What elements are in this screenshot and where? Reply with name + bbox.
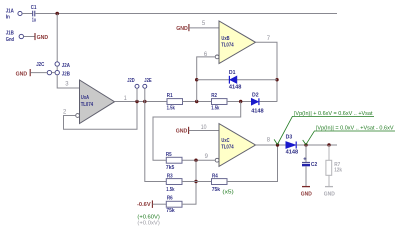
wire J2D to output net: [136, 88, 138, 101]
ground symbol (UxC pin10): [176, 127, 189, 135]
wire GND to UxC pin 10: [189, 130, 219, 132]
capacitor C2: [302, 145, 317, 186]
wire R6 to pin9 vertical: [182, 203, 197, 205]
wire J2E to output net: [144, 88, 146, 101]
junction pin9: [194, 159, 197, 162]
wire UxA output to R1: [115, 101, 168, 103]
svg-text:4148: 4148: [229, 85, 242, 91]
connector J2A: [55, 62, 71, 69]
wire R4 to UxC output branch: [227, 145, 278, 182]
resistor R4 75k: [212, 174, 228, 194]
svg-text:GND: GND: [324, 191, 335, 197]
wire UxB pin6 feedback: [197, 57, 216, 102]
svg-text:GND: GND: [176, 129, 188, 135]
wire D3 to C2/R7: [297, 144, 337, 146]
svg-text:5: 5: [202, 21, 206, 27]
wire GND to UxB pin 5: [189, 27, 219, 29]
svg-text:UxB: UxB: [221, 36, 229, 42]
wire -0.6V to R6: [153, 203, 167, 205]
svg-text:4148: 4148: [251, 108, 264, 114]
op-amp U1B (UxB TL074): [215, 21, 255, 64]
connector J2E: [143, 78, 152, 88]
svg-text:GND: GND: [16, 71, 28, 77]
svg-text:7k5: 7k5: [166, 165, 175, 171]
svg-text:3: 3: [65, 82, 69, 88]
svg-text:8: 8: [267, 138, 271, 144]
svg-text:GND: GND: [37, 35, 49, 41]
wire R3 to R4: [182, 181, 212, 183]
svg-text:In: In: [6, 15, 11, 21]
connector J1B: [6, 31, 24, 43]
note Vp lower: [303, 126, 395, 145]
wire J2C to J2B: [52, 72, 55, 74]
ground symbol (R7, ghost): [324, 187, 335, 198]
junction C2 tap: [304, 143, 307, 146]
svg-text:D2: D2: [252, 93, 259, 99]
op-amp U1A (UxA TL074): [76, 80, 115, 124]
wire pin9 to R5: [182, 159, 215, 161]
svg-text:-0.6V: -0.6V: [137, 202, 151, 208]
resistor R5 7k5: [166, 152, 182, 171]
junction UxC output: [276, 143, 279, 146]
svg-text:R6: R6: [167, 196, 173, 202]
junction R2/D2: [239, 100, 242, 103]
svg-text:9: 9: [205, 154, 209, 160]
ground symbol (UxB pin5): [176, 24, 189, 32]
wire R1 to R2: [183, 101, 212, 103]
svg-text:7: 7: [267, 36, 271, 42]
svg-text:75k: 75k: [166, 208, 175, 214]
wire UxA pin2 feedback loop: [64, 102, 138, 130]
wire pin9 vertical to R3/R6: [195, 160, 197, 204]
svg-text:TL074: TL074: [221, 43, 234, 49]
svg-text:GND: GND: [176, 26, 188, 32]
ground symbol (C2): [301, 187, 312, 198]
wire J2E net down to R3: [145, 102, 167, 182]
resistor R1 1.5k: [167, 93, 183, 112]
wire J2A to J2B: [56, 66, 58, 70]
svg-text:TL074: TL074: [81, 102, 94, 108]
wire D2 to UxB output branch: [259, 101, 277, 103]
svg-text:J2D: J2D: [127, 78, 134, 84]
svg-text:D3: D3: [286, 135, 293, 141]
diode D3 4148: [286, 135, 299, 156]
wire C1 to right end (top rail): [35, 13, 337, 15]
svg-text:J2A: J2A: [62, 63, 71, 69]
diode D1 4148: [229, 70, 242, 91]
svg-text:GND: GND: [301, 191, 312, 197]
junction pin6/D1: [195, 78, 198, 81]
svg-text:4148: 4148: [286, 150, 299, 156]
resistor R2 1.5k: [211, 93, 227, 112]
svg-text:12k: 12k: [334, 167, 342, 173]
wire R2 to D2: [227, 101, 251, 103]
wire R2/D2 junction down to R5 (feedback into pin 9 net): [153, 102, 241, 161]
supply symbol -0.6V: [137, 200, 152, 208]
svg-text:Gnd: Gnd: [6, 37, 15, 43]
svg-text:2: 2: [63, 109, 67, 115]
junction R1/R2: [195, 100, 198, 103]
resistor R7 12k (ghost): [326, 145, 343, 186]
note Vp upper: [274, 111, 374, 144]
svg-text:C2: C2: [311, 162, 317, 168]
svg-text:1.5k: 1.5k: [166, 187, 175, 193]
svg-text:J1B: J1B: [6, 31, 14, 37]
svg-text:(x5): (x5): [222, 190, 233, 196]
ground symbol (J2C): [16, 69, 31, 77]
svg-text:UxA: UxA: [81, 95, 90, 101]
junction J2D tap: [135, 100, 138, 103]
svg-text:C1: C1: [31, 5, 37, 11]
connector J2C: [36, 62, 51, 75]
svg-text:J1A: J1A: [6, 8, 15, 14]
wire UxB output: [256, 42, 278, 101]
wire UxC output row: [256, 144, 286, 146]
wire J2B to UxA pin 3: [57, 75, 79, 88]
capacitor C1 1u: [31, 5, 37, 24]
svg-text:UxC: UxC: [221, 138, 230, 144]
junction output/D1: [275, 78, 278, 81]
junction J2E tap: [143, 100, 146, 103]
junction top rail: [55, 12, 59, 16]
svg-text:J2E: J2E: [144, 78, 151, 84]
svg-text:10: 10: [201, 125, 207, 131]
junction R7 tap: [327, 143, 330, 146]
wire J1A to C1: [22, 13, 32, 15]
svg-text:75k: 75k: [212, 187, 221, 193]
junction R3/R4 row: [194, 180, 197, 183]
svg-text:1u: 1u: [32, 18, 36, 24]
svg-text:TL074: TL074: [221, 145, 234, 151]
svg-text:J2C: J2C: [36, 62, 45, 68]
wire D1 row: [197, 79, 277, 81]
resistor R3 1.5k: [166, 174, 182, 194]
op-amp U1C (UxC TL074): [215, 124, 255, 167]
connector J2D: [127, 78, 139, 88]
wire top rail down to J2A: [56, 14, 58, 62]
svg-text:J2B: J2B: [62, 71, 70, 77]
svg-text:(+0.0xV): (+0.0xV): [137, 221, 160, 227]
svg-text:1.5k: 1.5k: [167, 106, 176, 112]
svg-text:1.5k: 1.5k: [211, 106, 220, 112]
diode D2 4148: [251, 93, 264, 115]
connector J2B: [55, 70, 70, 77]
resistor R6 75k: [166, 196, 182, 215]
wire J1B to GND: [24, 36, 35, 38]
connector J1A: [6, 8, 22, 20]
ground symbol (J1B): [35, 33, 48, 41]
wire GND to J2C: [30, 72, 47, 74]
svg-text:D1: D1: [229, 70, 236, 76]
